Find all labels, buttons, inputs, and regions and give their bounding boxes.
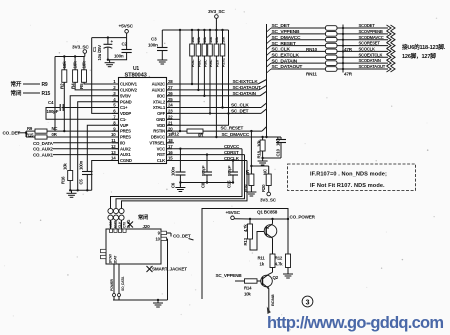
svg-text:SCOCLK: SCOCLK xyxy=(359,47,375,52)
svg-text:I/O: I/O xyxy=(120,140,126,145)
svg-text:VUP: VUP xyxy=(120,123,129,128)
wire col-180 to SC_RESET xyxy=(179,30,181,132)
wire col R9C to SC_DET xyxy=(209,56,211,115)
svg-text:CO_DATA: CO_DATA xyxy=(33,141,54,146)
resistor R12 0R (inline) xyxy=(167,129,205,137)
svg-text:1: 1 xyxy=(113,79,116,84)
annotation chinese: connect to U6 pins xyxy=(402,43,446,60)
wire CDVCC bundle xyxy=(111,149,243,208)
svg-text:R12: R12 xyxy=(172,131,180,136)
resistor R4 10k xyxy=(70,57,77,90)
svg-text:BC848: BC848 xyxy=(270,294,275,306)
svg-text:1POW: 1POW xyxy=(109,253,113,263)
svg-text:R16: R16 xyxy=(61,176,66,184)
resistor R2 10k xyxy=(60,57,67,90)
svg-text:VCC: VCC xyxy=(157,146,166,151)
ground J20 xyxy=(153,299,163,307)
wire R2 down to PRES line xyxy=(63,82,65,131)
transistor Q2 BC848 xyxy=(261,272,279,310)
wire col R101 to SC_CLK xyxy=(221,56,223,109)
capacitor C10 100n xyxy=(275,136,286,158)
svg-text:AUX1: AUX1 xyxy=(120,152,131,157)
svg-text:47R: 47R xyxy=(344,47,353,52)
capacitor C8 100pF xyxy=(201,155,212,188)
bus row SC_DATAOUT through RN resistor to SCODATAOUT xyxy=(267,64,396,73)
svg-text:SC-DATAIN: SC-DATAIN xyxy=(233,91,257,96)
svg-text:11: 11 xyxy=(111,138,116,143)
J20 left pins xyxy=(101,249,118,263)
svg-text:IF.R107=0 . Non_NDS mode;: IF.R107=0 . Non_NDS mode; xyxy=(310,172,387,178)
op-amp U1 ST80043 smartcard interface IC xyxy=(119,66,167,164)
svg-text:8: 8 xyxy=(113,120,116,125)
capacitor C6 100n xyxy=(171,149,186,188)
resistor R19 0R xyxy=(244,166,254,192)
node C8 on CDRST xyxy=(206,153,208,155)
svg-text:27: 27 xyxy=(168,85,173,90)
svg-text:Q1 BC858: Q1 BC858 xyxy=(257,210,278,215)
svg-text:3: 3 xyxy=(306,299,310,306)
wire XTAL2 pin25 stub xyxy=(167,101,181,103)
svg-text:SC_CLK: SC_CLK xyxy=(231,102,249,107)
wire +5V rail xyxy=(92,37,127,39)
svg-text:100n: 100n xyxy=(114,54,124,59)
svg-text:4.7k: 4.7k xyxy=(275,262,283,267)
svg-text:126脚，127脚: 126脚，127脚 xyxy=(402,52,436,60)
svg-text:23: 23 xyxy=(168,109,173,114)
net CDCLK xyxy=(167,156,248,161)
net SC-DATAIN xyxy=(167,91,267,96)
net CDVCC xyxy=(167,144,243,149)
J20 pins 9 and 10 with CO_DET xyxy=(156,230,194,241)
wire rail end to VDD pin21 xyxy=(167,30,229,125)
wire R5 to pin1 xyxy=(84,82,119,84)
X mark not-fitted pin xyxy=(127,222,133,228)
svg-text:R11: R11 xyxy=(258,256,266,261)
node rail-R2 xyxy=(63,55,65,57)
net SC_RESET xyxy=(203,126,267,132)
svg-text:5V/3V: 5V/3V xyxy=(120,93,131,98)
connector J20 box xyxy=(106,229,161,264)
svg-text:R18: R18 xyxy=(257,150,262,158)
svg-text:C4: C4 xyxy=(48,100,54,105)
ground under IC xyxy=(67,190,77,197)
ferrite beads FB1 FB2 FB3 on card signals xyxy=(108,208,124,230)
svg-text:47R: 47R xyxy=(344,72,353,77)
svg-text:SCODMAVCC: SCODMAVCC xyxy=(359,35,384,40)
svg-text:SCODATAIN: SCODATAIN xyxy=(359,58,381,63)
svg-text:18: 18 xyxy=(168,138,173,143)
net SC_CLK xyxy=(167,102,267,107)
svg-text:常闭: 常闭 xyxy=(11,89,22,97)
bus row SC_DMAVCC through RN resistor to SCODMAVCC xyxy=(267,35,396,44)
svg-text:3: 3 xyxy=(113,91,116,96)
svg-text:SC-EXTCLK: SC-EXTCLK xyxy=(233,79,259,84)
bus common vertical xyxy=(342,25,344,73)
node gnd-C5 xyxy=(86,189,88,191)
ground R19 xyxy=(246,189,256,196)
net CO_AUX2 xyxy=(33,147,119,152)
J20 top pins xyxy=(109,219,131,232)
svg-text:C1+: C1+ xyxy=(120,105,128,110)
svg-text:SC-DATAOUT: SC-DATAOUT xyxy=(233,85,262,90)
svg-text:+5VSC: +5VSC xyxy=(119,24,134,30)
wire caps common xyxy=(179,181,234,183)
net SC-DATAOUT xyxy=(167,85,267,90)
svg-text:常开: 常开 xyxy=(11,80,22,88)
svg-text:RN10: RN10 xyxy=(306,47,318,52)
wire GND pin22 stub xyxy=(167,118,181,120)
annotation NDS mode dashed box xyxy=(288,164,416,191)
svg-text:J20: J20 xyxy=(143,224,151,229)
net SC_DET xyxy=(167,108,267,114)
svg-text:3V3_SC: 3V3_SC xyxy=(260,198,277,203)
wire C1+ pin5 xyxy=(62,107,119,109)
power terminal +5VSC (switch) xyxy=(226,210,251,220)
node C1-C2 gnd xyxy=(107,59,109,61)
svg-text:GND: GND xyxy=(156,117,165,122)
resistor R11 1k xyxy=(258,254,276,272)
svg-text:RSTIN: RSTIN xyxy=(153,129,165,134)
svg-text:R14: R14 xyxy=(244,286,252,291)
node DMAVCC-R18 xyxy=(261,136,263,138)
svg-text:10: 10 xyxy=(111,132,116,137)
node gnd-pin4 xyxy=(77,189,79,191)
node CDVCC-C6 xyxy=(179,148,181,150)
wire col R10 to SC_DMAVCC xyxy=(215,56,217,138)
svg-text:R15: R15 xyxy=(42,91,51,97)
node R2-PRES xyxy=(63,130,65,132)
svg-text:SCOVPPENB: SCOVPPENB xyxy=(359,29,383,34)
wire col R6C to DATAOUT xyxy=(197,56,199,91)
ground caps C6/C8/C15 xyxy=(175,185,185,192)
svg-text:25: 25 xyxy=(168,97,173,102)
net CO_DET label xyxy=(3,131,21,136)
svg-text:3V3_SC: 3V3_SC xyxy=(208,9,225,15)
page number circled 3 xyxy=(302,296,313,307)
wire R18-C10 join xyxy=(261,157,281,159)
resistor R13 4.7k xyxy=(243,219,264,250)
svg-text:28: 28 xyxy=(168,79,173,84)
svg-text:PGND: PGND xyxy=(120,99,132,104)
wire col R8C to DATAIN xyxy=(203,56,205,97)
resistor network RN10 label xyxy=(306,47,353,52)
svg-text:C10: C10 xyxy=(275,148,280,156)
resistor R101 10k xyxy=(220,30,225,67)
capacitor C3 100n xyxy=(148,30,168,57)
power terminal 3V3_SC (middle) xyxy=(208,9,225,30)
svg-text:10: 10 xyxy=(156,236,161,241)
legend normally-closed R15 xyxy=(11,89,51,97)
svg-text:C5: C5 xyxy=(79,179,84,185)
resistor network RN11 label xyxy=(306,72,353,77)
svg-text:RN11: RN11 xyxy=(306,72,317,77)
bus row SC_VPPENB through RN resistor to SCOVPPENB xyxy=(267,29,396,38)
resistor R14 10k xyxy=(244,279,261,297)
svg-text:常闭: 常闭 xyxy=(138,213,148,221)
net SC_DMAVCC xyxy=(167,132,282,138)
svg-text:0R: 0R xyxy=(52,132,58,137)
svg-text:17: 17 xyxy=(168,144,173,149)
svg-text:22: 22 xyxy=(168,115,173,120)
ground R12b xyxy=(283,271,293,278)
wire CDRST bundle xyxy=(116,155,245,208)
svg-text:5: 5 xyxy=(113,103,116,108)
svg-text:7: 7 xyxy=(113,115,116,120)
svg-text:1k: 1k xyxy=(260,262,265,267)
svg-text:100n: 100n xyxy=(171,166,176,176)
bus row SC_DET through RN resistor to SCODET xyxy=(267,23,396,32)
svg-text:CO_POWER: CO_POWER xyxy=(290,215,316,220)
svg-text:2: 2 xyxy=(113,85,116,90)
node R19 tee xyxy=(250,165,252,167)
svg-text:IF Not Fit R107. NDS mode.: IF Not Fit R107. NDS mode. xyxy=(310,183,385,189)
svg-text:+: + xyxy=(111,39,114,44)
capacitor C2 100n xyxy=(108,38,132,60)
svg-text:XTAL1: XTAL1 xyxy=(153,105,166,110)
power terminal 3V3_SC (left) xyxy=(72,45,89,57)
svg-text:3V3_SC: 3V3_SC xyxy=(72,45,89,51)
svg-text:9: 9 xyxy=(113,126,116,131)
node rail-R4 xyxy=(74,55,76,57)
svg-text:CO_AUX1: CO_AUX1 xyxy=(33,153,54,158)
svg-text:10k: 10k xyxy=(244,292,251,297)
svg-text:PRES: PRES xyxy=(120,129,131,134)
node C15 on CDCLK xyxy=(232,159,234,161)
net SC_VPPENB xyxy=(216,273,245,281)
wire R4 to pin2 xyxy=(75,82,118,90)
svg-text:C6: C6 xyxy=(171,182,176,188)
resistor R18 10k xyxy=(257,137,266,159)
resistor R16 10k xyxy=(61,163,73,191)
svg-text:CO_AUX2: CO_AUX2 xyxy=(33,147,54,152)
svg-text:14: 14 xyxy=(111,156,116,161)
svg-text:16: 16 xyxy=(168,150,173,155)
net CO_DATA xyxy=(33,141,119,146)
svg-text:SMART_JACKET: SMART_JACKET xyxy=(152,267,187,272)
label SMART_JACKET xyxy=(147,266,188,272)
wire 3V3 rail drop left xyxy=(54,57,56,132)
wire PGND pin4 down xyxy=(78,102,119,191)
svg-text:C15: C15 xyxy=(227,180,232,188)
svg-text:CLK: CLK xyxy=(157,158,166,163)
svg-text:R9: R9 xyxy=(42,82,48,88)
svg-text:21: 21 xyxy=(168,120,173,125)
svg-text:SCORESET: SCORESET xyxy=(359,41,381,46)
svg-text:AUX2: AUX2 xyxy=(120,146,131,151)
capacitor C5 100n xyxy=(79,125,119,190)
svg-text:R5: R5 xyxy=(79,83,84,89)
node gnd-R16 xyxy=(69,189,71,191)
wire 3V3 rail left xyxy=(55,56,85,58)
bus row SC_CLK through RN resistor to SCOCLK xyxy=(267,47,396,56)
svg-text:XTAL2: XTAL2 xyxy=(153,99,166,104)
wire J20 ground rail xyxy=(113,299,168,301)
svg-text:C1-: C1- xyxy=(120,117,127,122)
svg-text:100pF: 100pF xyxy=(47,109,59,114)
svg-text:I/OC: I/OC xyxy=(157,93,165,98)
ground R18/C10 xyxy=(258,158,268,165)
net CDRST xyxy=(167,150,245,155)
svg-text:15: 15 xyxy=(168,156,173,161)
capacitor C4 100pF xyxy=(47,100,64,114)
svg-text:SCODET: SCODET xyxy=(359,23,376,28)
svg-text:CO_DET: CO_DET xyxy=(173,233,191,238)
wire J20 bottom pins down xyxy=(110,264,125,300)
resistor R9C 10k xyxy=(208,30,213,67)
resistor R12b 4.7k xyxy=(275,219,291,271)
wire CO_DET xyxy=(18,131,27,137)
svg-text:SC_DET: SC_DET xyxy=(231,108,249,113)
svg-text:http://www.go-gddq.com: http://www.go-gddq.com xyxy=(267,314,443,332)
net CO_AUX1 xyxy=(33,153,119,158)
svg-text:CLKDIV2: CLKDIV2 xyxy=(120,88,138,93)
svg-text:R13: R13 xyxy=(243,237,248,245)
bus row SC_RESET through RN resistor to SCORESET xyxy=(267,41,396,50)
svg-text:RST: RST xyxy=(157,152,166,157)
resistor R6C 10k xyxy=(196,30,201,67)
svg-text:100n: 100n xyxy=(275,136,280,146)
svg-text:CLKDIV1: CLKDIV1 xyxy=(120,82,138,87)
label J20 xyxy=(143,224,151,229)
svg-text:C7X: C7X xyxy=(122,221,126,228)
resistor R9 NC xyxy=(26,126,119,133)
wire ground rail xyxy=(70,189,92,191)
svg-text:Q2: Q2 xyxy=(273,275,279,280)
svg-text:SC_RESET: SC_RESET xyxy=(221,126,244,131)
svg-text:R12: R12 xyxy=(275,256,283,261)
resistor R15 0R xyxy=(26,132,119,139)
subcircuit box xyxy=(202,209,288,300)
svg-text:AUX1C: AUX1C xyxy=(152,88,166,93)
svg-text:SO_DATA: SO_DATA xyxy=(121,276,125,291)
svg-text:100n: 100n xyxy=(79,160,84,170)
svg-text:接U6的118-123脚.: 接U6的118-123脚. xyxy=(402,43,446,51)
svg-text:24: 24 xyxy=(168,103,173,108)
wire pin10 down xyxy=(167,239,169,300)
transistor Q1 BC858 xyxy=(257,210,278,255)
wire CDCLK bundle xyxy=(122,161,248,208)
svg-text:R4: R4 xyxy=(70,83,75,89)
U1 pins and pin numbers xyxy=(111,79,173,163)
svg-text:VDD: VDD xyxy=(157,123,166,128)
capacitor C15 100pF xyxy=(227,161,238,189)
net CO_POWER xyxy=(290,215,316,220)
wire emitter rail xyxy=(249,218,289,220)
resistor R20 NC xyxy=(251,166,271,192)
svg-text:FAIO: FAIO xyxy=(113,220,117,228)
svg-text:+5VSC: +5VSC xyxy=(226,210,241,216)
legend normally-open R9 xyxy=(11,80,48,88)
resistor R5 10k xyxy=(79,57,86,90)
svg-text:CGND: CGND xyxy=(120,158,132,163)
bus row SC_EXTCLK through RN resistor to SCOEXTCLK xyxy=(267,52,396,61)
svg-text:DBVCC: DBVCC xyxy=(151,135,165,140)
svg-text:R2: R2 xyxy=(60,83,65,89)
wire CGND pin14 down xyxy=(92,161,119,191)
svg-text:VCC: VCC xyxy=(109,221,113,228)
wire 5V/3V pin3 down xyxy=(70,96,118,171)
svg-text:26: 26 xyxy=(168,91,173,96)
svg-text:SCOEXTCLK: SCOEXTCLK xyxy=(359,52,383,57)
node RESET-R19R20 xyxy=(250,130,252,132)
ground for C3 xyxy=(157,57,167,64)
resistor R5C 10k xyxy=(190,30,195,67)
resistor R10 10k xyxy=(214,30,219,67)
resistor R8C 10k xyxy=(202,30,207,67)
svg-text:10u /25V: 10u /25V xyxy=(97,45,102,61)
svg-text:AUX2C: AUX2C xyxy=(152,82,166,87)
svg-text:R20: R20 xyxy=(261,184,266,192)
svg-text:C1: C1 xyxy=(92,46,97,52)
svg-text:6: 6 xyxy=(113,109,116,114)
node rail-C1 xyxy=(107,36,109,38)
svg-text:12: 12 xyxy=(111,144,116,149)
svg-text:SC_VPPENB: SC_VPPENB xyxy=(216,273,243,278)
svg-text:POWER: POWER xyxy=(110,278,114,291)
svg-text:OFF: OFF xyxy=(157,111,166,116)
svg-text:U1: U1 xyxy=(133,66,139,72)
svg-text:2DAT: 2DAT xyxy=(114,255,118,264)
wire bus vertical xyxy=(266,24,268,137)
svg-text:9: 9 xyxy=(158,230,161,235)
svg-text:NC: NC xyxy=(52,126,58,131)
wire C4 to C1- pin7 xyxy=(46,108,119,120)
svg-text:VTRSEL: VTRSEL xyxy=(149,140,165,145)
rail junction dots xyxy=(179,29,224,31)
watermark arrow xyxy=(267,307,271,315)
svg-text:100pF: 100pF xyxy=(227,165,232,176)
net SC-EXTCLK xyxy=(167,79,267,84)
svg-text:100n: 100n xyxy=(148,43,158,48)
svg-text:100pF: 100pF xyxy=(201,165,206,176)
wire RESET down to R19/R20 xyxy=(250,131,252,166)
power terminal 3V3_SC (bottom) xyxy=(260,192,277,202)
capacitor C1 10u/25V xyxy=(92,38,114,61)
power terminal +5VSC (top) xyxy=(119,24,134,38)
svg-text:VDDP: VDDP xyxy=(120,111,131,116)
wire 3V3 rail middle xyxy=(162,29,228,31)
svg-text:SC_DMAVCC: SC_DMAVCC xyxy=(222,132,250,137)
watermark go-gddq.com xyxy=(267,314,443,332)
svg-text:10k: 10k xyxy=(63,163,68,170)
wire VTRSEL pin18 stub xyxy=(167,142,175,144)
label 常闭 xyxy=(138,213,148,221)
wire col R5C to EXTCLK xyxy=(191,56,193,85)
ground for C1/C2 xyxy=(105,60,115,67)
svg-text:CLK: CLK xyxy=(118,221,122,228)
wire +5V to VDDP pin6 xyxy=(92,38,119,114)
svg-text:ST80043: ST80043 xyxy=(125,73,148,79)
svg-text:C3: C3 xyxy=(151,37,157,42)
svg-text:PRES: PRES xyxy=(120,135,131,140)
node CO_DET split xyxy=(25,132,27,134)
svg-text:13: 13 xyxy=(111,150,116,155)
bus row SC_DATAIN through RN resistor to SCODATAIN xyxy=(267,58,396,67)
svg-text:SCODATAOUT: SCODATAOUT xyxy=(359,64,386,69)
svg-text:R9: R9 xyxy=(27,126,33,131)
